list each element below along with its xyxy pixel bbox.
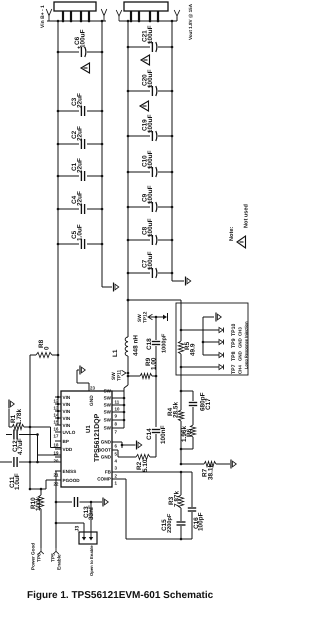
svg-text:1.0uF: 1.0uF	[14, 473, 21, 490]
pin n SW right	[104, 389, 124, 394]
svg-text:CH3: CH3	[238, 327, 243, 336]
capacitor C21	[128, 25, 172, 52]
svg-text:20: 20	[54, 459, 59, 464]
resistor R2	[112, 450, 156, 472]
pin 19 VDD	[54, 447, 73, 456]
svg-text:TP8: TP8	[231, 351, 237, 361]
pin 7 SW right	[104, 426, 124, 435]
testpoint on J2 right	[174, 10, 180, 21]
wire SW bus	[123, 391, 126, 428]
svg-text:38.1k: 38.1k	[208, 464, 215, 480]
note text Not used	[243, 203, 250, 228]
label CH3	[238, 327, 243, 336]
svg-text:1.0uF: 1.0uF	[77, 224, 84, 241]
capacitor C18	[146, 317, 168, 376]
svg-text:GND: GND	[89, 395, 95, 406]
pin 3 x right	[115, 466, 118, 471]
note triangle 1 (C6)	[81, 63, 90, 73]
svg-text:GND: GND	[238, 338, 243, 348]
pin 11 SW right	[104, 396, 124, 405]
svg-text:SW: SW	[104, 426, 112, 431]
label Loop Response Injection	[244, 321, 249, 369]
svg-text:1.00: 1.00	[151, 357, 158, 370]
svg-text:TP6: TP6	[37, 553, 43, 562]
ground input bank	[114, 283, 119, 292]
capacitor C2	[58, 126, 102, 149]
resistor R3	[168, 472, 184, 521]
loop response injection box	[176, 303, 248, 375]
svg-text:SW: SW	[111, 372, 117, 380]
svg-text:UVLO: UVLO	[63, 430, 76, 435]
svg-text:1.78k: 1.78k	[16, 409, 23, 425]
label TP10	[231, 323, 237, 336]
svg-text:18: 18	[54, 443, 59, 448]
wire VIN pins to rail	[57, 396, 60, 420]
capacitor C11	[0, 457, 61, 490]
capacitor C14	[146, 376, 167, 457]
svg-text:Power Good: Power Good	[31, 543, 36, 570]
capacitor C13	[56, 497, 102, 520]
svg-text:1000pF: 1000pF	[162, 333, 168, 353]
svg-text:Loop Response Injection: Loop Response Injection	[244, 321, 249, 369]
caption	[27, 590, 214, 601]
wire EN	[55, 471, 61, 548]
svg-text:0: 0	[44, 346, 51, 350]
pin 2 FB right	[105, 470, 118, 479]
wire SW/VOUT left rail	[127, 21, 130, 337]
resistor R8	[30, 339, 58, 357]
svg-text:SW: SW	[104, 418, 112, 423]
ground output bank	[186, 277, 191, 286]
testpoint TP12	[137, 311, 168, 323]
label GND TP8	[238, 351, 243, 361]
pin 1 COMP right	[97, 477, 117, 486]
svg-text:BOOT: BOOT	[98, 448, 111, 453]
net label Vin B+	[40, 5, 46, 28]
wire PGOOD	[30, 480, 61, 490]
svg-text:U1: U1	[85, 425, 92, 433]
testpoint chevron y330	[219, 327, 224, 332]
ground C13	[103, 498, 108, 507]
svg-text:Vout 1.8V @ 15A: Vout 1.8V @ 15A	[188, 3, 193, 40]
svg-text:GND: GND	[238, 351, 243, 361]
testpoint TP5	[51, 548, 63, 570]
svg-text:16: 16	[54, 427, 59, 432]
inductor L1	[112, 335, 140, 357]
svg-text:100uF: 100uF	[147, 251, 154, 270]
svg-text:2200pF: 2200pF	[167, 513, 173, 533]
resistor R4	[167, 402, 184, 464]
svg-text:VIN: VIN	[63, 416, 71, 421]
note triangle 1 (C21)	[141, 55, 150, 65]
connector J2 (VOUT output)	[124, 2, 168, 21]
svg-text:448 nH: 448 nH	[133, 335, 140, 356]
pin 18 BP	[54, 439, 69, 448]
svg-text:C18: C18	[146, 338, 153, 350]
label TP9	[231, 338, 237, 348]
label GND TP9	[238, 338, 243, 348]
svg-text:23: 23	[90, 386, 95, 391]
svg-text:C17: C17	[205, 398, 212, 410]
testpoint TP11	[111, 369, 126, 381]
capacitor C1	[58, 158, 102, 181]
svg-text:Vin B+ - 1: Vin B+ - 1	[40, 5, 46, 28]
svg-text:100uF: 100uF	[80, 29, 87, 48]
svg-text:22uF: 22uF	[77, 191, 84, 206]
wire COMP	[112, 479, 192, 540]
svg-text:VIN: VIN	[63, 423, 71, 428]
pin 15 VIN	[54, 416, 71, 425]
label TP7	[231, 364, 237, 374]
pin 14 VIN	[54, 409, 71, 418]
wire BP branch	[38, 435, 62, 463]
label TP8	[231, 351, 237, 361]
svg-text:TP11: TP11	[117, 369, 123, 381]
pin 6 GND right	[101, 440, 118, 449]
svg-text:100uF: 100uF	[147, 218, 154, 237]
testpoint chevron y355	[219, 352, 224, 357]
ground pin6	[112, 441, 142, 450]
capacitor C7	[128, 251, 172, 278]
capacitor C15	[161, 513, 186, 539]
wire VIN rail	[57, 21, 60, 425]
note triangle 1 (C20)	[140, 101, 149, 111]
svg-text:10: 10	[115, 407, 120, 412]
capacitor C3	[58, 93, 102, 116]
pin 5 BOOT right	[98, 448, 118, 457]
pin 10 SW right	[104, 403, 124, 412]
svg-text:BP: BP	[63, 439, 69, 444]
ground R1	[9, 400, 14, 409]
svg-text:VIN: VIN	[63, 409, 71, 414]
wire FB	[112, 471, 192, 474]
testpoint chevron y367	[219, 364, 224, 369]
svg-text:4.7uF: 4.7uF	[17, 438, 24, 455]
IC U1 TPS56121DQP body	[61, 391, 112, 487]
svg-text:TP7: TP7	[231, 364, 237, 374]
svg-text:28.5k: 28.5k	[173, 402, 180, 418]
wire input GND rail	[101, 21, 112, 287]
capacitor C6	[58, 29, 102, 57]
svg-text:Open to Enable: Open to Enable	[89, 545, 94, 576]
svg-text:GND: GND	[101, 440, 112, 445]
svg-text:FB: FB	[105, 470, 112, 475]
wire J2 output bus	[119, 20, 177, 23]
svg-text:VIN: VIN	[63, 395, 71, 400]
capacitor C20	[128, 69, 172, 96]
svg-text:100uF: 100uF	[147, 69, 154, 88]
resistor R9	[128, 357, 158, 378]
wire TP7 stub	[181, 366, 219, 368]
svg-text:TP10: TP10	[231, 323, 237, 336]
svg-text:22uF: 22uF	[77, 158, 84, 173]
svg-text:SW: SW	[104, 410, 112, 415]
wire TP10 stub	[181, 329, 219, 331]
wire UVLO node	[29, 355, 32, 490]
label CH4	[238, 365, 243, 374]
pin 20	[54, 457, 62, 464]
svg-text:22uF: 22uF	[77, 93, 84, 108]
resistor R7	[180, 461, 230, 480]
testpoint chevron y342	[219, 339, 224, 344]
resistor R6	[181, 425, 196, 449]
pin 4 GND right	[101, 455, 118, 464]
svg-text:100k: 100k	[35, 496, 42, 511]
svg-text:22uF: 22uF	[77, 126, 84, 141]
svg-text:TP12: TP12	[143, 311, 149, 323]
svg-text:15: 15	[54, 420, 59, 425]
svg-text:SW: SW	[104, 389, 112, 394]
capacitor C10	[128, 150, 172, 177]
wire SW node	[124, 356, 129, 428]
wire J1 input bus	[47, 20, 106, 23]
svg-text:100uF: 100uF	[147, 114, 154, 133]
svg-text:Enable: Enable	[57, 554, 63, 570]
svg-text:11: 11	[115, 400, 120, 405]
testpoint on J2 left	[116, 10, 122, 21]
capacitor C8	[128, 218, 172, 245]
svg-text:EN/SS: EN/SS	[63, 469, 77, 474]
wire feedback main	[180, 300, 183, 408]
svg-text:5.10: 5.10	[142, 459, 149, 472]
resistor R10	[30, 489, 44, 548]
wire TP gnd bus	[202, 317, 219, 355]
testpoint on J1 right	[101, 9, 107, 21]
svg-text:TP5: TP5	[51, 553, 57, 562]
capacitor C5	[58, 224, 102, 249]
capacitor C9	[128, 185, 172, 212]
net label Vout 1.8V	[188, 3, 193, 40]
svg-text:100nF: 100nF	[160, 425, 167, 444]
svg-text:100uF: 100uF	[147, 185, 154, 204]
svg-text:R6: R6	[186, 428, 193, 437]
wire VOUT sense	[127, 299, 181, 302]
svg-text:GND: GND	[101, 455, 112, 460]
capacitor C4	[58, 191, 102, 214]
svg-text:TP9: TP9	[231, 338, 237, 348]
svg-text:SW: SW	[104, 403, 112, 408]
svg-text:100uF: 100uF	[147, 150, 154, 169]
svg-text:49.9: 49.9	[190, 343, 197, 356]
pin 12 VIN	[54, 395, 71, 404]
connector J3	[56, 502, 97, 544]
pin 8 SW right	[104, 418, 124, 427]
resistor R5	[178, 341, 196, 356]
ground R7	[231, 460, 236, 469]
svg-text:CH4: CH4	[238, 365, 243, 374]
svg-text:PGOOD: PGOOD	[63, 478, 81, 483]
ground loop injection	[216, 313, 221, 322]
svg-text:SW: SW	[104, 396, 112, 401]
label Open to Enable	[89, 545, 94, 576]
resistor R1	[9, 409, 61, 448]
svg-text:Not used: Not used	[243, 203, 250, 228]
svg-text:7.87k: 7.87k	[174, 491, 181, 507]
svg-text:100pF: 100pF	[198, 512, 205, 531]
svg-text:SW: SW	[137, 314, 143, 322]
pin 16 VIN	[54, 423, 71, 432]
svg-text:17: 17	[54, 434, 59, 439]
svg-text:COMP: COMP	[97, 477, 111, 482]
svg-text:Note:: Note:	[229, 227, 235, 241]
svg-text:J3: J3	[75, 526, 81, 532]
ground pad 23	[80, 366, 85, 375]
connector J1 (VIN input)	[54, 2, 96, 21]
pin 23 PAD	[77, 370, 95, 406]
capacitor C12	[6, 430, 39, 456]
capacitor C16	[188, 472, 205, 539]
pin 9 SW right	[104, 410, 124, 419]
pin 13 VIN	[54, 402, 71, 411]
svg-text:Figure 1. TPS56121EVM-601 Sche: Figure 1. TPS56121EVM-601 Schematic	[27, 590, 214, 601]
svg-text:100uF: 100uF	[147, 25, 154, 44]
note triangle 1 (legend)	[237, 236, 246, 248]
svg-text:VDD: VDD	[63, 447, 73, 452]
note text	[229, 227, 235, 241]
pin 22 PGOOD	[54, 478, 81, 487]
svg-text:L1: L1	[112, 349, 119, 357]
wire VOUT rail	[171, 21, 184, 281]
capacitor C17	[180, 390, 212, 425]
testpoint on J1 left	[46, 9, 52, 21]
testpoint TP6	[31, 543, 44, 570]
svg-text:VIN: VIN	[63, 402, 71, 407]
pin 17 UVLO	[54, 430, 76, 439]
svg-text:C14: C14	[146, 428, 153, 440]
capacitor C19	[128, 114, 172, 141]
pin 21 EN/SS	[54, 469, 77, 478]
